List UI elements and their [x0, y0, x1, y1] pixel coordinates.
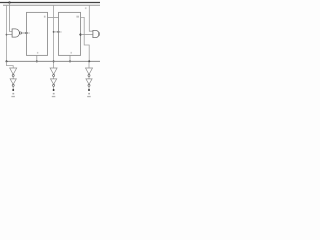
wire X6 output [88, 86, 90, 90]
IC U1 box [27, 12, 48, 55]
junction dot V3 branch [53, 31, 55, 33]
node B junction dot on V2 [6, 34, 8, 36]
IC U2 box [59, 12, 81, 55]
pin number text U2 left [60, 31, 61, 33]
net label middle line1 [53, 93, 55, 95]
junction dot left rail end [6, 60, 8, 62]
wire G1 output to IC1 [22, 32, 27, 34]
pin number text U1 bottom [37, 52, 38, 54]
wire X5 to X6 [88, 77, 90, 79]
bottom rail [6, 60, 100, 62]
net label middle line2 [52, 96, 56, 97]
wire V3 rail to middle chain already drawn; inverter X3 triangle [50, 68, 57, 74]
inverter X3 bubble [53, 75, 55, 77]
junction dot U2 right mid pin [79, 34, 81, 36]
wire X4 output [53, 86, 55, 90]
wire V1 from dark rail to NAND input A [10, 3, 13, 32]
inverter X4 bubble [53, 84, 55, 86]
nand gate G1 body [12, 29, 19, 37]
pin number text near V4 top [85, 7, 87, 9]
inverter X4 triangle [51, 79, 57, 84]
node A junction dot on dark rail [8, 1, 10, 3]
net label right line2 [87, 96, 91, 97]
inverter X5 triangle [86, 68, 93, 74]
inverter X6 bubble [88, 84, 90, 86]
wire U1 bottom pin to rail [36, 55, 38, 61]
pin number text U2 right top [76, 16, 79, 18]
wire U2 right top pin jog down to rail [81, 17, 90, 61]
wire V4 from gray rail to gate G2 input A [89, 5, 93, 31]
net label right line1 [88, 93, 90, 95]
net label left line2 [11, 96, 15, 97]
inverter X1 triangle [10, 68, 17, 74]
pin number text U1 right [44, 16, 46, 18]
wire U1 pin to U2 pin [48, 16, 59, 18]
wire U2 mid pin to gate G2 input B [81, 34, 94, 36]
wire X2 output [12, 86, 14, 90]
wire X3 to X4 [53, 77, 55, 79]
nand gate G2 body [93, 30, 99, 37]
wire jog into left inverter chain [7, 61, 14, 68]
inverter X2 triangle [10, 79, 16, 84]
terminal dot right [88, 89, 90, 91]
junction dot right column at rail [88, 60, 90, 62]
pin number text U2 bottom [71, 52, 72, 54]
terminal dot left [12, 89, 14, 91]
wire stub to NAND input B [7, 34, 13, 36]
junction dot at U2 left pin [57, 31, 59, 33]
terminal dot middle [53, 89, 55, 91]
power rail VDD (dark) [0, 2, 100, 4]
wire V3 branch to U2 [54, 31, 59, 33]
net label left line1 [12, 93, 14, 95]
junction dot U2 bottom [69, 60, 71, 62]
inverter X6 triangle [86, 79, 92, 84]
inverter X1 bubble [12, 75, 14, 77]
wire V3 from gray rail down to inverter chain [53, 5, 55, 68]
wire V2 from gray rail down to bottom rail [6, 5, 8, 61]
inverter X2 bubble [12, 84, 14, 86]
pin number text U1 left [28, 32, 29, 34]
wire U2 bottom pin to rail [69, 55, 71, 61]
nand gate G2 output bubble [99, 33, 101, 35]
nand gate G1 output bubble [20, 32, 22, 34]
junction dot U1 bottom [36, 60, 38, 62]
inverter X5 bubble [88, 75, 90, 77]
wire X1 to X2 [12, 77, 14, 79]
junction dot at IC1 pin [25, 32, 27, 34]
wire rail to right chain [88, 61, 90, 68]
power rail 2 (gray) [3, 4, 100, 6]
junction dot V3 at bottom rail [53, 60, 55, 62]
